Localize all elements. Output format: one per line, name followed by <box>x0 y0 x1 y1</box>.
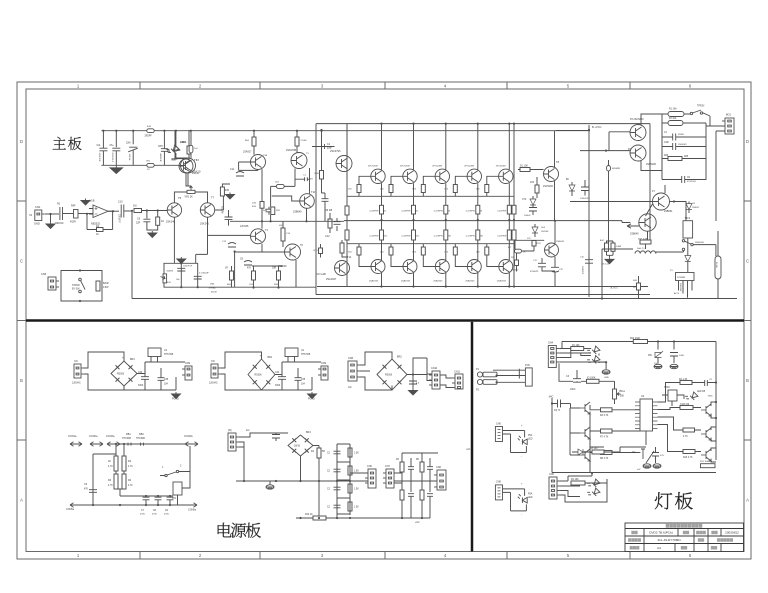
svg-text:DVD2 7B.6(PCb): DVD2 7B.6(PCb) <box>649 531 673 535</box>
svg-text:RB1: RB1 <box>126 433 131 436</box>
bridge rectifier PSU1 <box>111 361 137 386</box>
resistor R4 <box>187 146 191 154</box>
svg-text:A -VCC: A -VCC <box>611 287 619 290</box>
resistor RL5 <box>601 408 613 412</box>
wire T2 column <box>261 169 263 201</box>
resistor R16b <box>271 207 275 215</box>
svg-text:CN8: CN8 <box>436 466 441 469</box>
bridge rectifier BR3 <box>288 435 313 456</box>
svg-text:0.22RPW: 0.22RPW <box>497 211 506 213</box>
svg-text:50K: 50K <box>620 396 625 398</box>
resistor RE6 lower <box>512 230 516 240</box>
ground T7 bias <box>226 193 235 200</box>
resistor R array left upper <box>345 206 349 215</box>
wire PSU1 cap stub <box>144 362 146 390</box>
op-amp U1 NE5532 <box>89 205 112 218</box>
svg-text:1K: 1K <box>96 233 99 236</box>
wire CL4 stubs <box>655 447 657 463</box>
regulator U PSU1 <box>148 348 161 357</box>
transistor Q35 <box>701 428 711 440</box>
svg-text:STAND: STAND <box>72 284 80 287</box>
svg-text:C10: C10 <box>118 201 123 204</box>
svg-text:C10M: C10M <box>301 140 307 142</box>
svg-text:2R2PF: 2R2PF <box>145 136 153 138</box>
wire mains second <box>662 122 706 124</box>
svg-text:GND: GND <box>34 222 40 226</box>
ground ZD2 <box>654 364 662 368</box>
regulator U PSU2 <box>285 348 298 357</box>
wire mains vertical left <box>662 114 673 159</box>
transistor T12 driver <box>336 156 352 172</box>
wire R13 drop <box>296 130 298 153</box>
wire base 3 lower <box>423 244 435 267</box>
svg-text:20030812: 20030812 <box>725 531 739 535</box>
svg-text:4700: 4700 <box>140 514 146 516</box>
wire column 1 emitter chain <box>381 124 383 287</box>
svg-text:C5+: C5+ <box>110 145 115 147</box>
potentiometer VR1 <box>187 186 195 194</box>
svg-text:2SC5200: 2SC5200 <box>646 163 657 166</box>
wire Q33 nets <box>570 433 640 473</box>
wire switch net <box>160 446 190 505</box>
wire T10 emitter <box>306 208 308 221</box>
wire T1 emitter to VR1 <box>186 173 191 186</box>
resistor RL12 box <box>701 464 716 468</box>
svg-text:C: C <box>20 259 23 264</box>
wire R4 leads <box>190 131 192 158</box>
svg-text:2SA1943: 2SA1943 <box>497 280 507 283</box>
wire resistor ties <box>232 266 283 288</box>
wire CN8 net top <box>503 489 525 496</box>
svg-text:2FC520M: 2FC520M <box>464 165 474 167</box>
svg-text:4700: 4700 <box>164 514 170 516</box>
svg-text:VR1 2K: VR1 2K <box>185 196 194 199</box>
wire C6 to gnd <box>147 222 152 230</box>
wire Q32 nets <box>570 408 640 473</box>
wire protect row net <box>120 495 173 497</box>
wire contacts out <box>693 245 716 256</box>
resistor RE2 upper 0.22 <box>412 205 416 214</box>
svg-text:T5: T5 <box>178 196 182 200</box>
transistor Q34 <box>701 404 711 416</box>
svg-text:A: A <box>20 498 23 503</box>
resistor RE6 upper <box>512 205 516 214</box>
svg-text:BR2: BR2 <box>397 356 402 359</box>
wire T6 base feed <box>235 252 262 288</box>
wire lamp left rail <box>551 398 553 473</box>
wire Q31 nets <box>571 404 641 473</box>
wire to CN12 <box>350 472 368 474</box>
connector CN17 main <box>548 346 559 368</box>
wire lamp top rail <box>633 341 716 343</box>
svg-text:1N4148: 1N4148 <box>541 231 549 233</box>
wire zobel <box>330 213 337 233</box>
LED D1 <box>166 144 180 158</box>
svg-text:R11 100R: R11 100R <box>700 461 710 463</box>
wire CN17 nets <box>559 349 606 363</box>
svg-text:TR06: TR06 <box>664 387 670 389</box>
wire F7 base line <box>570 201 653 203</box>
transistor Q13 2SC5200 upper <box>467 169 481 183</box>
svg-text:470UF/LF: 470UF/LF <box>111 153 113 163</box>
resistor R26v <box>532 241 536 247</box>
wire C15 to rail <box>542 258 555 287</box>
svg-text:120VAC: 120VAC <box>209 382 218 385</box>
resistor RB5 lower <box>485 247 489 255</box>
transistor T10 2SC2240 <box>300 194 315 209</box>
capacitor C11 <box>236 172 244 177</box>
wire output feed down <box>602 249 633 299</box>
resistor RL13 <box>592 450 604 454</box>
capacitor CL2 electrolytic <box>573 379 581 383</box>
wire zener stubs <box>658 356 674 364</box>
switch S1 <box>690 110 702 115</box>
wire opamp output <box>108 210 119 212</box>
wire input to C2 <box>45 213 59 215</box>
svg-text:12C945: 12C945 <box>240 225 249 228</box>
wire T1 collector <box>188 154 190 159</box>
wire feedback return <box>103 211 113 229</box>
resistor RE4 lower 0.22 <box>476 230 480 240</box>
svg-text:C8 100: C8 100 <box>590 448 598 450</box>
resistor R1 vertical <box>74 210 79 219</box>
wire D3 C14 net <box>532 196 534 215</box>
wire +VCC rail right <box>588 125 590 297</box>
capacitor C7 variable diagonal <box>128 147 138 152</box>
svg-text:0.22RPW: 0.22RPW <box>466 211 475 213</box>
wire PSU2 +dc rail <box>275 362 321 375</box>
svg-text:C8H: C8H <box>158 146 163 148</box>
wire base 2 lower <box>391 244 403 267</box>
connector PJ1 <box>525 368 532 386</box>
wire Q36 nets <box>658 425 717 463</box>
diode DL1 <box>578 449 583 455</box>
diode D5 <box>685 256 691 262</box>
svg-text:C6+: C6+ <box>632 452 637 454</box>
IC U2 pins <box>635 402 658 429</box>
svg-text:140R: 140R <box>616 246 622 248</box>
svg-text:100U: 100U <box>679 355 685 357</box>
svg-text:0.22RPW: 0.22RPW <box>434 211 443 213</box>
connector CN6 <box>495 427 502 442</box>
svg-text:AC N: AC N <box>674 292 679 295</box>
wire bias box center <box>180 263 182 287</box>
resistor RE1 upper 0.22 <box>380 205 384 214</box>
wire cap bank bus <box>101 164 180 166</box>
wire L4 to gnd <box>581 353 606 369</box>
svg-text:P5A: P5A <box>528 492 533 495</box>
switch SP1 <box>165 470 179 476</box>
wire F5/F6 collectors <box>641 114 662 171</box>
diode ZD2 zener <box>655 351 663 358</box>
svg-text:PJN: PJN <box>525 364 530 367</box>
capacitor C10 <box>121 205 124 218</box>
svg-text:12B4SW: 12B4SW <box>679 283 681 291</box>
resistor R31 <box>640 240 651 244</box>
ground PSU1 <box>172 392 181 399</box>
svg-text:CN5: CN5 <box>549 473 554 476</box>
wire bottom rail psu <box>296 517 430 519</box>
resistor RL11 <box>683 450 695 454</box>
svg-text:CN1: CN1 <box>35 205 41 209</box>
svg-text:GND: GND <box>708 396 713 398</box>
wire base 5 lower <box>487 244 499 267</box>
svg-text:CN8: CN8 <box>348 357 354 360</box>
svg-text:LED: LED <box>528 439 533 441</box>
capacitor CM2 <box>334 451 341 454</box>
capacitor C8 <box>225 217 233 220</box>
connector CN14 <box>434 470 446 490</box>
wire protect top net <box>112 444 192 456</box>
svg-text:2SC5200: 2SC5200 <box>543 185 554 188</box>
wire F8 down to L1 <box>647 231 649 240</box>
svg-text:D: D <box>20 139 23 144</box>
connector CN11 <box>452 374 463 389</box>
svg-text:1.5K: 1.5K <box>354 507 359 509</box>
wire C1b net <box>295 178 310 180</box>
LED D1 <box>165 143 179 157</box>
svg-text:47K: 47K <box>247 268 252 270</box>
resistor RM5 <box>348 502 352 511</box>
arrow output left <box>627 224 639 228</box>
LED L2 <box>586 486 600 500</box>
ground bias box <box>177 257 186 264</box>
bridge rectifier PSU2 <box>248 359 275 390</box>
wire protect left loop <box>93 454 116 505</box>
capacitor CP1 <box>89 490 97 493</box>
wire right rail top <box>402 452 438 454</box>
svg-text:1.5K: 1.5K <box>354 471 359 473</box>
connector BO1 mains <box>722 118 734 134</box>
wire CM1 stub <box>275 433 277 441</box>
wire R19 C20 chain <box>322 130 326 221</box>
LED L3 <box>586 344 600 358</box>
resistor RP2 <box>122 456 126 471</box>
svg-text:1N4007: 1N4007 <box>692 207 700 209</box>
fuse F1 capsule <box>668 112 684 117</box>
svg-text:2SA1943: 2SA1943 <box>369 280 379 283</box>
wire CN4 down <box>559 363 573 381</box>
wire cap bank drops <box>103 131 164 166</box>
svg-text:LED D8: LED D8 <box>697 391 706 393</box>
svg-text:120VAC: 120VAC <box>72 382 81 385</box>
inductor L1 coil <box>635 251 656 254</box>
svg-text:0.22RPW: 0.22RPW <box>434 236 443 238</box>
resistor RE1 lower 0.22 <box>380 230 384 240</box>
svg-text:R7R: R7R <box>537 243 542 245</box>
wire R5 to T5 base <box>142 210 168 212</box>
LED CN8A <box>518 494 527 503</box>
resistor RL3 <box>633 340 647 344</box>
svg-text:4.7K: 4.7K <box>128 485 133 487</box>
svg-text:2FC520M: 2FC520M <box>368 165 378 167</box>
svg-text:HTC60R: HTC60R <box>122 438 131 440</box>
transistor T8 2SC5200 <box>544 167 559 182</box>
resistor RB4 upper <box>453 185 457 193</box>
resistor R9 <box>220 187 224 196</box>
net CON4A arrow <box>185 442 198 446</box>
wire PSU1 gnd rail <box>124 377 176 390</box>
resistor R12 <box>252 137 256 146</box>
transistor T6 2SB649 <box>285 244 301 260</box>
wire CN8 net loop <box>503 492 527 511</box>
resistor RB1 fusible <box>128 443 144 446</box>
svg-text:10R: 10R <box>272 268 277 270</box>
wire power module pins <box>679 281 693 298</box>
wire lamp bottom strip <box>590 431 646 447</box>
capacitor C9b <box>682 176 685 183</box>
svg-text:RY1: RY1 <box>172 498 177 500</box>
resistor RL4 <box>587 379 600 383</box>
relay RY1 box <box>173 482 182 495</box>
wire PSU3 to CN wires <box>413 358 432 381</box>
wire PSU2 gnd rail <box>262 377 313 390</box>
svg-text:C12: C12 <box>325 235 330 238</box>
svg-text:2SA1837: 2SA1837 <box>326 278 337 281</box>
svg-text:AC: AC <box>348 385 352 389</box>
wire base 3 upper <box>423 176 435 196</box>
svg-text:2SA1943: 2SA1943 <box>401 280 411 283</box>
transistor Q10 2SC5200 upper <box>371 169 385 183</box>
wire Q35 nets <box>658 417 717 441</box>
svg-text:R1 10K: R1 10K <box>572 345 580 347</box>
svg-text:2W10: 2W10 <box>294 446 301 448</box>
transistor F6 2SC5200 <box>630 145 646 161</box>
svg-text:RB2: RB2 <box>139 433 144 436</box>
wire R4 to rail <box>188 130 190 159</box>
capacitor C20 <box>322 199 329 202</box>
wire T7 source down <box>196 217 208 263</box>
capacitor C17 electrolytic <box>177 268 185 271</box>
wire column 3 emitter chain <box>445 124 447 287</box>
wire TR1 nets <box>662 395 684 406</box>
capacitor CM8 <box>408 494 414 497</box>
capacitor CM9 <box>427 494 433 497</box>
wire T1 emitter to VR1 <box>188 173 191 186</box>
wire T2 base loop <box>239 162 258 170</box>
svg-text:TPS7KB: TPS7KB <box>164 353 174 356</box>
wire T16 base row <box>515 239 544 241</box>
diode D6 <box>686 204 692 210</box>
wire standby box <box>61 271 102 302</box>
wire PSU2 cap stub <box>281 362 283 390</box>
wire output box bottom <box>316 294 650 296</box>
svg-text:13B: 13B <box>276 210 280 212</box>
wire CN10-CN11 link <box>440 375 452 388</box>
wire to C6 gnd leg <box>146 211 148 219</box>
transistor T5 2SK246 <box>167 203 181 217</box>
resistor RL1 <box>571 481 585 485</box>
resistor R25 <box>535 185 539 193</box>
resistor R24 <box>520 168 530 172</box>
svg-text:2FC520M: 2FC520M <box>496 165 506 167</box>
svg-text:0.22RPW: 0.22RPW <box>370 236 379 238</box>
svg-text:BY SW: BY SW <box>72 289 80 291</box>
IC U2 <box>640 399 653 431</box>
wire F3 net <box>717 231 719 299</box>
wire PSU1 +dc rail <box>137 362 185 374</box>
svg-text:820R: 820R <box>103 283 109 285</box>
wire PSU2 cap2 stub <box>297 368 299 390</box>
capacitor CM4 <box>334 487 341 490</box>
svg-text:LED: LED <box>528 497 533 499</box>
svg-text:CN4: CN4 <box>548 342 554 345</box>
wire T4 emitter <box>262 244 284 252</box>
svg-text:10UF50F: 10UF50F <box>98 153 100 163</box>
resistor RE4 upper 0.22 <box>476 205 480 214</box>
resistor RE3 lower 0.22 <box>444 230 448 240</box>
resistor RE2 lower 0.22 <box>412 230 416 240</box>
svg-text:B12M: B12M <box>211 292 217 294</box>
svg-text:2SB649: 2SB649 <box>278 265 287 268</box>
resistor RM2 <box>348 448 352 457</box>
svg-text:VR1a: VR1a <box>619 391 625 393</box>
svg-text:3300: 3300 <box>138 385 144 387</box>
svg-text:R3 4.7K: R3 4.7K <box>600 415 609 417</box>
svg-text:GND: GND <box>604 377 609 379</box>
svg-text:2SB649: 2SB649 <box>630 233 639 236</box>
svg-text:5R: 5R <box>322 451 325 453</box>
svg-text:2FC520M: 2FC520M <box>432 165 442 167</box>
resistor RB1 lower <box>357 247 361 255</box>
wire T10 base <box>272 196 300 201</box>
svg-text:R6J: R6J <box>480 236 484 238</box>
wire D4 stubs <box>534 224 536 237</box>
wire col319 <box>318 458 320 518</box>
svg-text:1.5K: 1.5K <box>354 453 359 455</box>
resistor RM8 <box>400 490 404 500</box>
svg-text:100UF/F: 100UF/F <box>581 266 583 275</box>
wire column 6 <box>513 124 515 287</box>
svg-text:2SA1943: 2SA1943 <box>433 280 443 283</box>
transistor T11 driver <box>335 261 350 276</box>
resistor RM9 <box>420 490 424 500</box>
resistor R1H capsule in rail <box>147 129 154 133</box>
connector CN5 <box>48 277 59 290</box>
LED L4 <box>586 353 600 367</box>
svg-text:R4 1.3K: R4 1.3K <box>679 379 688 381</box>
wire top feed <box>562 342 633 349</box>
wire RL1 out <box>585 479 607 483</box>
svg-text:A: A <box>746 498 749 503</box>
wire R1 to opamp <box>78 213 93 215</box>
svg-text:POWER: POWER <box>677 277 686 279</box>
wire L1 out <box>646 244 684 254</box>
wire BR3 out <box>301 446 320 482</box>
resistor RM10 <box>313 516 326 520</box>
svg-text:C35: C35 <box>164 379 169 381</box>
svg-text:10UF: 10UF <box>570 389 576 391</box>
wire CL2 net <box>577 370 586 382</box>
svg-text:500R4: 500R4 <box>167 271 174 273</box>
wire bottom tie <box>198 286 316 288</box>
svg-text:CN6: CN6 <box>496 422 501 425</box>
wire +V rail top <box>101 130 590 132</box>
svg-text:CON1a: CON1a <box>68 435 77 438</box>
ground PSU2 <box>308 392 317 399</box>
wire T5 source down <box>173 217 175 263</box>
wire base 1 upper <box>359 176 371 196</box>
svg-text:C34: C34 <box>138 372 143 374</box>
resistor RL10 <box>683 428 695 432</box>
wire left column <box>346 124 348 287</box>
wire PSU1 cap2 stub <box>160 368 162 390</box>
wire lamp bottom rail <box>552 472 716 474</box>
wire T8 to B rail <box>556 130 589 132</box>
svg-text:P5A: P5A <box>528 434 533 437</box>
resistor RB5 upper <box>485 185 489 193</box>
capacitor CP2 <box>143 497 150 500</box>
